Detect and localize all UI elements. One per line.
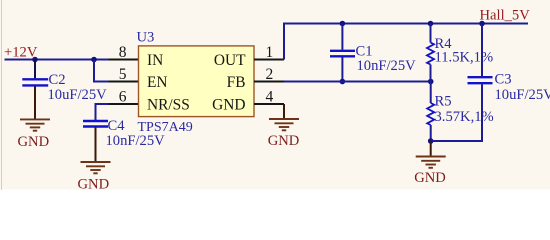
svg-text:6: 6 bbox=[119, 89, 127, 106]
junction node FB R4 R5 bbox=[428, 79, 434, 85]
ground stem under C2 bbox=[34, 87, 36, 120]
ground stem under C4 bbox=[95, 128, 97, 162]
wire R4 lower bbox=[430, 65, 432, 82]
svg-text:10uF/25V: 10uF/25V bbox=[495, 87, 550, 103]
svg-text:10uF/25V: 10uF/25V bbox=[48, 87, 108, 103]
wire OUT to top rail bbox=[284, 24, 528, 60]
ground stem under pin 4 bbox=[283, 104, 285, 119]
svg-text:IN: IN bbox=[147, 52, 163, 69]
svg-text:Hall_5V: Hall_5V bbox=[480, 8, 531, 24]
svg-text:2: 2 bbox=[266, 66, 274, 83]
svg-text:5: 5 bbox=[119, 66, 127, 83]
wire EN drop bbox=[94, 60, 109, 82]
svg-text:GND: GND bbox=[18, 134, 50, 150]
capacitor C2 bbox=[22, 79, 48, 85]
ground symbol under R5 bbox=[416, 157, 446, 168]
ground stem under R5 bbox=[430, 141, 432, 156]
IC U3 pin stubs right (pins 1,2,4) bbox=[254, 60, 284, 105]
resistor R4 bbox=[427, 43, 434, 65]
svg-text:R5: R5 bbox=[435, 94, 452, 110]
junction node C3 top bbox=[479, 21, 485, 27]
svg-text:GND: GND bbox=[414, 170, 446, 186]
svg-text:8: 8 bbox=[119, 44, 127, 61]
wire FB net bbox=[284, 81, 431, 83]
schematic sheet background bbox=[0, 0, 550, 190]
svg-text:NR/SS: NR/SS bbox=[147, 97, 190, 114]
ground symbol under pin 4 bbox=[269, 119, 299, 130]
svg-text:1: 1 bbox=[266, 44, 274, 61]
svg-text:3.57K,1%: 3.57K,1% bbox=[435, 109, 494, 125]
wire R5 lower bbox=[430, 125, 432, 141]
svg-text:11.5K,1%: 11.5K,1% bbox=[435, 50, 494, 66]
wire C1 upper bbox=[341, 24, 343, 50]
wire C3 upper bbox=[481, 24, 483, 77]
svg-text:10nF/25V: 10nF/25V bbox=[106, 133, 166, 149]
wire R4 upper bbox=[430, 24, 432, 43]
svg-text:GND: GND bbox=[268, 133, 300, 149]
svg-text:10nF/25V: 10nF/25V bbox=[357, 58, 417, 74]
capacitor C3 bbox=[468, 77, 493, 83]
junction node at EN tap bbox=[91, 57, 97, 63]
junction node C1 top bbox=[340, 21, 346, 27]
svg-text:FB: FB bbox=[227, 74, 246, 91]
svg-text:C4: C4 bbox=[108, 118, 126, 134]
capacitor C1 bbox=[330, 51, 355, 57]
junction node R5 bottom bbox=[428, 138, 434, 144]
svg-text:OUT: OUT bbox=[214, 52, 246, 69]
IC U3 body bbox=[139, 46, 255, 117]
svg-text:EN: EN bbox=[147, 74, 168, 91]
ground symbol under C2 bbox=[20, 119, 50, 130]
svg-text:U3: U3 bbox=[137, 30, 155, 46]
wire C2 stem bbox=[34, 60, 36, 79]
junction node R4 top bbox=[428, 21, 434, 27]
wire R5 upper bbox=[430, 82, 432, 104]
svg-text:GND: GND bbox=[78, 177, 110, 193]
resistor R5 bbox=[427, 103, 434, 125]
ground symbol under C4 bbox=[81, 162, 111, 173]
wire C3 lower to R5 bottom bbox=[431, 84, 482, 141]
IC U3 pin stubs left (pins 8,5,6) bbox=[109, 60, 139, 105]
capacitor C4 bbox=[83, 121, 108, 127]
wire C1 lower bbox=[341, 57, 343, 81]
svg-text:C3: C3 bbox=[495, 72, 512, 88]
wire +12V rail bbox=[5, 59, 109, 61]
svg-text:4: 4 bbox=[266, 89, 274, 106]
svg-text:GND: GND bbox=[212, 97, 245, 114]
junction node C1 bottom bbox=[340, 79, 346, 85]
wire NR/SS from C4 bbox=[96, 104, 109, 120]
junction node at C2 tap bbox=[32, 57, 38, 63]
svg-text:C2: C2 bbox=[49, 72, 66, 88]
svg-text:TPS7A49: TPS7A49 bbox=[138, 120, 193, 135]
